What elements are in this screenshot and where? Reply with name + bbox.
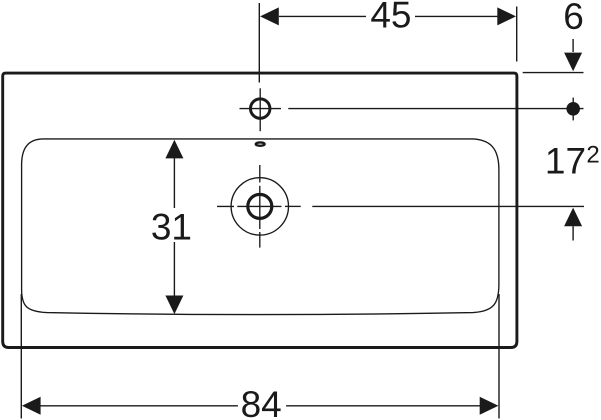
basin inner outline	[22, 139, 499, 315]
faucet hole crosshair vertical	[259, 88, 261, 131]
drain outer circle	[231, 178, 288, 235]
dimension 6 arrow down	[564, 53, 582, 72]
drain inner circle	[248, 194, 272, 218]
dimension 84 extension line right	[498, 294, 500, 419]
svg-text:6: 6	[563, 0, 584, 37]
dimension 17 arrow up	[564, 208, 582, 227]
dimension 45 arrow right	[497, 7, 516, 25]
svg-text:45: 45	[370, 0, 411, 35]
dimension 17 arrow stem	[572, 226, 574, 240]
svg-text:17: 17	[545, 141, 586, 182]
dimension 31 line	[173, 158, 175, 296]
dimension 6 dot tick vertical	[572, 98, 574, 121]
drain centerline vertical	[259, 165, 261, 248]
dimension 6 arrow stem	[572, 39, 574, 52]
faucet hole circle	[251, 99, 270, 118]
dimension 84 line	[40, 405, 481, 407]
dimension 84 arrow left	[22, 397, 41, 415]
faucet hole crosshair horizontal	[240, 108, 282, 110]
dimension 31 arrow up	[165, 140, 183, 159]
dimension 6 reference dot	[566, 102, 580, 116]
svg-text:2: 2	[586, 142, 599, 169]
dimension 45 extension line left (faucet axis)	[258, 3, 260, 83]
overflow slot	[256, 142, 265, 145]
drain centerline horizontal	[217, 205, 301, 207]
svg-text:84: 84	[241, 384, 282, 420]
svg-text:31: 31	[151, 206, 192, 247]
dimension 84 arrow right	[480, 397, 499, 415]
faucet centerline extension to right	[288, 108, 583, 110]
dimension 31 arrow down	[165, 296, 183, 315]
dimension 45 arrow left	[260, 7, 279, 25]
dimension 84 extension line left	[20, 294, 22, 419]
drain centerline extension to right	[312, 205, 584, 207]
top edge extension line right	[523, 72, 584, 74]
washbasin outer outline	[3, 73, 517, 347]
dimension 45 extension line right	[516, 7, 518, 62]
dimension 45 line	[279, 15, 499, 17]
